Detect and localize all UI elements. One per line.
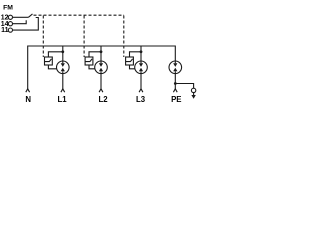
node junction PE [174,82,177,85]
spark gap circle [135,61,148,74]
wire [62,46,64,61]
wire to terminal [100,74,102,89]
svg-text:N: N [25,95,31,104]
wire [13,18,39,31]
svg-text:PE: PE [171,95,181,104]
wire [100,46,102,61]
spark gap circle [57,61,70,74]
wire [175,84,193,89]
node junction [140,50,143,53]
earth terminal circle [191,88,195,92]
terminal L1 caret [61,89,65,92]
terminal 14 [1,20,26,28]
earth branch [175,84,196,99]
wire [13,16,29,18]
wire from box to spark gap [130,65,135,69]
node junction [61,50,64,53]
svg-text:11: 11 [1,27,9,34]
spark gap circle [169,61,182,74]
mechanical linkage (dashed) [34,15,125,57]
N-PE spark gap element [169,61,182,104]
changeover contact arm [28,14,32,17]
terminal 12 [1,14,29,21]
wire to disconnector [48,52,62,57]
spark gap arrows [140,61,142,63]
spark gap arrows [100,61,102,63]
wire from box to spark gap [89,65,95,69]
bus wire N [28,46,176,89]
disconnector box [85,57,93,65]
spark gap arrows [174,61,176,63]
svg-text:FM: FM [3,5,13,12]
phase element L3 [126,46,148,104]
caret [26,89,30,92]
terminal N [25,89,31,104]
svg-text:L2: L2 [98,95,108,104]
phase element L2 [85,46,108,104]
disconnector box [126,57,134,65]
svg-text:L3: L3 [136,95,146,104]
wire [140,46,142,61]
ground arrow [193,93,195,95]
switch symbol inside box [45,59,52,62]
terminal L3 caret [139,89,143,92]
wire to terminal [174,74,176,89]
switch symbol inside box [126,59,133,62]
wire [13,20,27,23]
wire to terminal [62,74,64,89]
spark gap arrows [62,61,64,63]
terminal 11 [1,18,38,35]
terminal L2 caret [99,89,103,92]
wire from box to spark gap [48,65,56,69]
svg-text:L1: L1 [57,95,67,104]
wire to disconnector [89,52,101,57]
node junction [100,50,103,53]
wire to terminal [140,74,142,89]
disconnector box [45,57,53,65]
spark gap circle [95,61,108,74]
phase element L1 [45,46,70,104]
switch symbol inside box [86,59,93,62]
wire to disconnector [130,52,142,57]
terminal PE caret [173,89,177,92]
